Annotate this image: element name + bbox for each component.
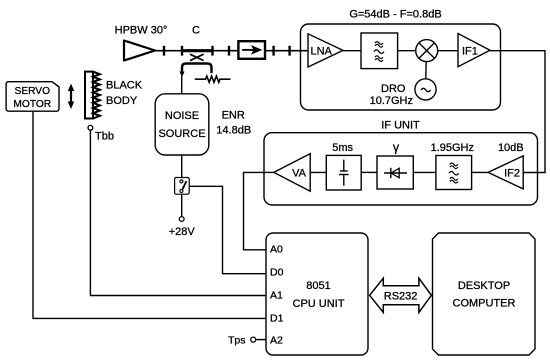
svg-text:SERVO: SERVO xyxy=(15,86,51,97)
amplifier LNA xyxy=(308,34,343,67)
switch xyxy=(175,178,190,195)
wire detector to integrator xyxy=(361,171,377,173)
mixer xyxy=(416,40,438,62)
diode xyxy=(384,172,407,174)
svg-text:5ms: 5ms xyxy=(332,142,353,154)
isolator xyxy=(238,41,265,59)
amplifier IF2 xyxy=(488,156,523,189)
svg-text:DRO: DRO xyxy=(381,83,406,95)
svg-text:IF UNIT: IF UNIT xyxy=(381,119,420,131)
node Tbb xyxy=(88,125,93,130)
svg-text:HPBW 30°: HPBW 30° xyxy=(115,25,168,37)
wire IF1 output to IF unit xyxy=(490,51,545,173)
RS232 link arrow xyxy=(370,278,432,312)
wire servo motor to D1 xyxy=(33,112,266,319)
svg-text:+28V: +28V xyxy=(169,226,196,238)
wire noise source to switch xyxy=(181,155,183,178)
wire switch to +28V node xyxy=(181,194,183,216)
capacitor xyxy=(339,160,349,186)
IF unit box xyxy=(264,133,538,205)
wire VA to A0 xyxy=(244,172,274,249)
svg-text:BLACK: BLACK xyxy=(106,80,143,92)
horn antenna xyxy=(124,41,155,61)
svg-text:MOTOR: MOTOR xyxy=(13,99,51,110)
wire LNA to filter xyxy=(343,50,361,52)
svg-text:COMPUTER: COMPUTER xyxy=(453,298,516,310)
svg-text:RS232: RS232 xyxy=(384,290,418,302)
wire mixer to DRO xyxy=(425,62,427,79)
wire main waveguide line xyxy=(153,50,238,52)
wire Tbb to A1 xyxy=(90,130,266,295)
svg-text:IF2: IF2 xyxy=(504,168,520,180)
scan double arrow xyxy=(70,88,72,105)
RF front-end box xyxy=(301,24,501,110)
svg-text:IF1: IF1 xyxy=(462,46,478,58)
integrator 5ms box xyxy=(326,155,361,190)
svg-text:Tbb: Tbb xyxy=(95,131,114,143)
svg-text:Tps: Tps xyxy=(228,334,246,346)
noise source box xyxy=(155,94,209,155)
svg-text:BODY: BODY xyxy=(106,95,138,107)
wire integrator to VA xyxy=(310,171,326,173)
svg-text:D1: D1 xyxy=(270,312,284,324)
detector gamma box xyxy=(377,156,413,189)
amplifier IF1 xyxy=(458,34,490,67)
svg-text:1.95GHz: 1.95GHz xyxy=(431,142,474,154)
wire IF2 to 1.95GHz filter xyxy=(472,171,488,173)
IF bandpass filter 1.95GHz xyxy=(436,156,472,190)
svg-text:CPU UNIT: CPU UNIT xyxy=(293,298,345,310)
svg-text:G=54dB - F=0.8dB: G=54dB - F=0.8dB xyxy=(349,9,441,21)
8051 CPU box xyxy=(266,233,368,355)
svg-text:C: C xyxy=(192,25,200,37)
svg-text:10.7GHz: 10.7GHz xyxy=(370,95,413,107)
coupler arm xyxy=(182,64,212,74)
wire filter to detector xyxy=(413,171,436,173)
wire coupler arm to noise source xyxy=(181,76,183,94)
svg-text:A0: A0 xyxy=(270,244,283,256)
svg-text:VA: VA xyxy=(292,168,307,180)
desktop computer box xyxy=(433,233,536,355)
local oscillator DRO xyxy=(415,79,436,100)
svg-text:A2: A2 xyxy=(270,335,283,347)
black body xyxy=(85,72,93,119)
servo motor box xyxy=(6,82,59,112)
wire switch to D0 xyxy=(189,186,266,273)
wire filter to mixer xyxy=(398,50,416,52)
svg-text:8051: 8051 xyxy=(306,280,330,292)
svg-text:LNA: LNA xyxy=(311,46,333,58)
svg-text:D0: D0 xyxy=(270,267,284,279)
svg-text:SOURCE: SOURCE xyxy=(158,128,205,140)
wire mixer to IF1 xyxy=(438,50,458,52)
node +28V xyxy=(179,217,184,222)
directional coupler cross xyxy=(190,54,204,60)
waveguide flange ticks xyxy=(164,46,290,56)
resistor termination xyxy=(195,76,231,82)
svg-text:10dB: 10dB xyxy=(498,142,524,154)
RF bandpass filter xyxy=(361,33,398,69)
svg-text:14.8dB: 14.8dB xyxy=(216,124,251,136)
svg-text:ENR: ENR xyxy=(222,109,245,121)
svg-text:γ: γ xyxy=(393,141,400,155)
svg-text:DESKTOP: DESKTOP xyxy=(458,280,510,292)
svg-text:A1: A1 xyxy=(270,290,283,302)
amplifier VA xyxy=(274,154,310,192)
svg-text:NOISE: NOISE xyxy=(165,110,199,122)
